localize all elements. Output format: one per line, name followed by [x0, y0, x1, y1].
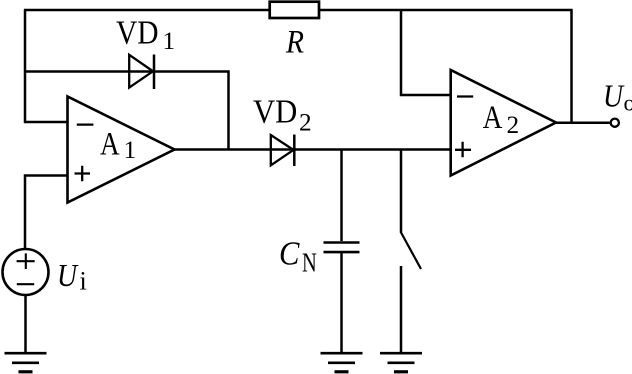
wire: switch branch lower	[400, 266, 403, 353]
ground (C_N branch)	[321, 353, 363, 372]
source - polarity mark	[17, 283, 34, 285]
A1 non-inverting input marker +	[75, 166, 91, 181]
wire: VD1 anode/cathode horizontal	[24, 70, 230, 73]
label U_o	[603, 79, 632, 117]
C_N bottom plate	[324, 251, 360, 254]
svg-text:A: A	[100, 125, 120, 162]
svg-text:A: A	[483, 99, 503, 136]
VD2 cathode bar	[293, 135, 296, 167]
wire: source to ground	[24, 295, 27, 353]
capacitor C_N	[324, 243, 360, 253]
svg-text:2: 2	[299, 109, 312, 137]
A1 inverting input marker -	[77, 123, 94, 125]
wire: C_N branch upper	[340, 149, 343, 242]
svg-text:2: 2	[507, 111, 520, 139]
svg-text:VD: VD	[116, 15, 159, 52]
label VD2	[253, 93, 312, 136]
wire: A2 inverting input from top bus	[401, 10, 451, 96]
svg-text:N: N	[302, 247, 317, 277]
voltage source U_i circle	[3, 249, 49, 295]
svg-text:1: 1	[124, 135, 137, 164]
label U_i	[57, 258, 87, 295]
wire: top bus right of resistor R	[318, 9, 573, 12]
wire: C_N branch lower	[340, 253, 343, 353]
ground (source)	[5, 353, 47, 372]
wire: VD1 feedback vertical	[227, 71, 230, 151]
resistor R	[270, 2, 319, 18]
op-amp U1 (A1) triangle	[68, 97, 175, 203]
op-amp U2 (A2) triangle	[451, 70, 556, 176]
svg-text:C: C	[279, 236, 300, 273]
wire: A2 output	[555, 121, 610, 124]
ground (switch branch)	[380, 353, 422, 372]
VD2 anode triangle	[271, 135, 294, 165]
VD1 cathode bar	[153, 55, 156, 90]
diode VD2	[271, 135, 295, 167]
wire: right vertical feedback	[570, 10, 573, 124]
svg-text:U: U	[57, 258, 79, 293]
VD1 anode triangle	[129, 55, 153, 88]
wire: A1 non-inverting input from source	[25, 176, 68, 249]
svg-text:VD: VD	[253, 93, 297, 130]
C_N top plate	[324, 241, 360, 244]
switch S blade	[401, 232, 422, 270]
svg-text:1: 1	[163, 27, 176, 55]
diode VD1	[129, 55, 154, 90]
label A1	[100, 125, 136, 164]
svg-text:i: i	[80, 267, 87, 296]
label A2	[483, 99, 519, 139]
svg-text:o: o	[624, 90, 632, 116]
wire: top bus left of resistor R	[24, 9, 269, 12]
label VD1	[116, 15, 175, 56]
output terminal	[611, 119, 619, 127]
wire: A1 output bus to A2 non-inverting input	[174, 148, 451, 151]
A2 non-inverting input marker +	[455, 142, 471, 157]
source + polarity mark	[17, 253, 35, 269]
svg-text:R: R	[285, 23, 304, 60]
svg-text:U: U	[603, 79, 625, 114]
label C_N	[279, 236, 317, 278]
wire: switch branch upper	[400, 149, 403, 233]
A2 inverting input marker -	[457, 95, 473, 97]
wire: A1 inverting input	[24, 121, 68, 124]
wire: left vertical bus	[24, 10, 27, 124]
